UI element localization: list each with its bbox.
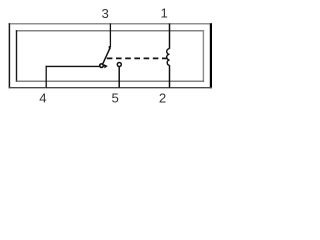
pin 1 lead	[169, 23, 171, 48]
mechanical linkage dashed line	[107, 57, 168, 59]
relay K1 outer body rectangle	[9, 23, 212, 88]
relay K1 inner body rectangle	[16, 30, 204, 82]
switch SW1 lever foot wedge at contact	[104, 64, 108, 68]
switch SW1 lever	[103, 47, 111, 64]
pin 4 lead	[45, 66, 47, 88]
switch SW1 open contact circle (pin 5)	[117, 63, 121, 67]
relay coil (pins 1-2)	[167, 49, 170, 66]
pin 2 lead	[169, 65, 171, 88]
switch SW1 lever arrowhead	[109, 46, 111, 51]
svg-text:1: 1	[161, 6, 168, 21]
wire pin 4 to common contact	[46, 65, 100, 67]
switch SW1 common contact circle (pin 4)	[100, 64, 104, 68]
svg-text:2: 2	[159, 90, 166, 105]
pin 5 lead	[118, 66, 120, 87]
svg-text:4: 4	[39, 90, 46, 105]
pin 3 lead	[109, 23, 111, 47]
svg-text:3: 3	[102, 6, 109, 21]
svg-text:5: 5	[112, 90, 119, 105]
